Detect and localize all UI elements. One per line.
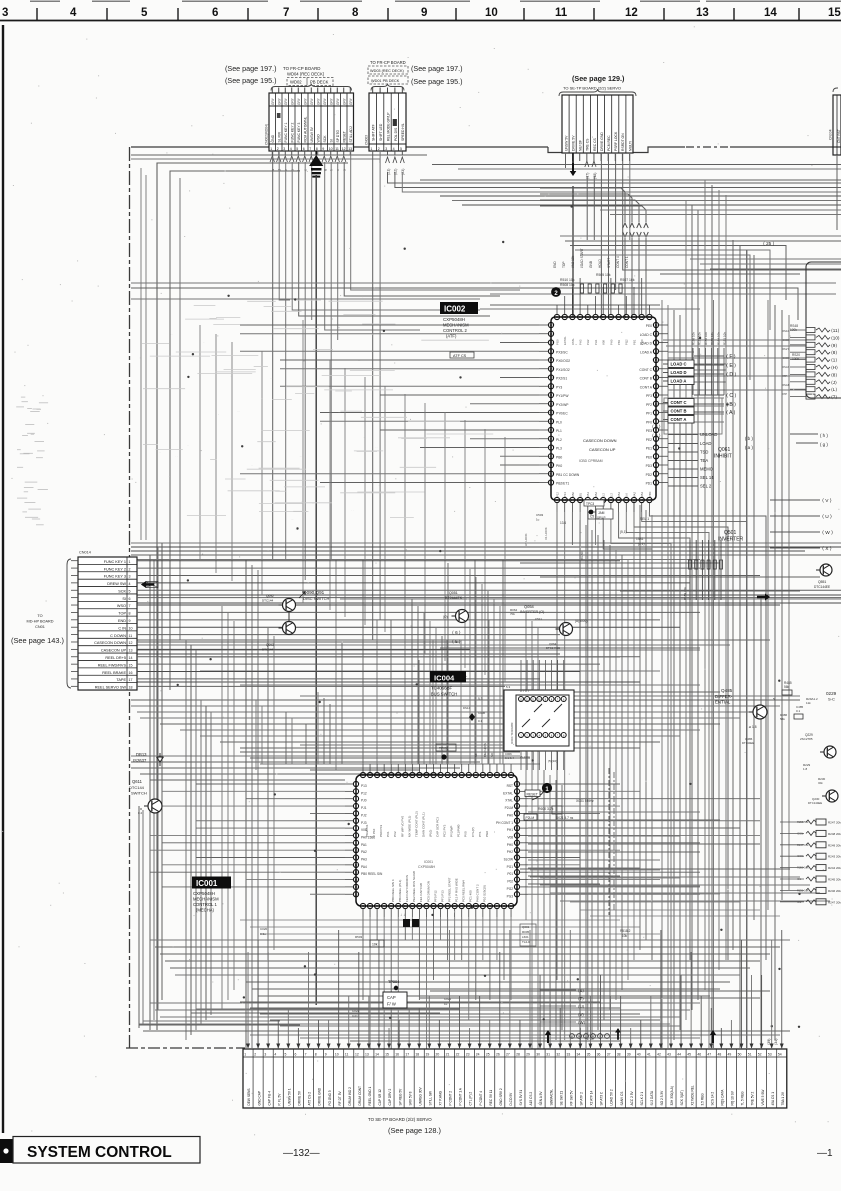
wire (137, 681, 640, 683)
bottom connector entry wires (246, 930, 784, 1049)
svg-text:CONT C: CONT C (671, 400, 687, 405)
wire (732, 240, 734, 950)
svg-text:( b ): ( b ) (745, 436, 753, 441)
svg-text:IC001: IC001 (196, 879, 218, 888)
transistor Q551 (814, 564, 832, 589)
svg-text:-: - (313, 502, 314, 506)
svg-text:7: 7 (129, 604, 131, 608)
svg-text:PY2/WP: PY2/WP (450, 826, 454, 837)
svg-text:13: 13 (365, 1052, 369, 1056)
svg-text:MECH CS: MECH CS (483, 743, 487, 757)
svg-text:PL0: PL0 (556, 420, 562, 424)
svg-text:⟨ 5 ⟩: ⟨ 5 ⟩ (452, 639, 461, 644)
svg-text:44: 44 (677, 1052, 681, 1056)
svg-text:..: .. (378, 483, 380, 487)
wire (300, 695, 800, 697)
svg-text:SHIFT LED: SHIFT LED (379, 123, 383, 141)
wire (199, 325, 201, 560)
svg-text:⟨9⟩: ⟨9⟩ (831, 343, 837, 348)
transistor Q229 (800, 733, 836, 758)
wire (179, 178, 181, 640)
net labels 6 5 casecon (452, 630, 461, 644)
svg-text:PX0/OO2: PX0/OO2 (556, 359, 570, 363)
svg-text:Q501: Q501 (724, 530, 736, 536)
wire (549, 775, 551, 1049)
wire (690, 258, 841, 260)
svg-text:TO FR-CP BOARD: TO FR-CP BOARD (283, 66, 320, 71)
wire (610, 214, 841, 216)
svg-text:CONTROL 1: CONTROL 1 (193, 902, 217, 907)
ruler (0, 7, 841, 21)
svg-text:R154 10k: R154 10k (716, 332, 720, 345)
wire (143, 1030, 790, 1032)
svg-text:R518-2: R518-2 (620, 929, 631, 933)
label CN002 board ref (283, 66, 333, 86)
svg-text:10k: 10k (372, 943, 378, 947)
wire (131, 282, 836, 284)
svg-text:37: 37 (607, 1052, 611, 1056)
wire (668, 397, 724, 399)
wire (540, 884, 810, 886)
svg-text:WD03 (REC DECK): WD03 (REC DECK) (370, 69, 404, 73)
svg-text:UNSW 5V 1: UNSW 5V 1 (287, 1088, 291, 1105)
net label 25 (763, 241, 774, 246)
wire (613, 772, 615, 912)
svg-text:SPEED H/L: SPEED H/L (401, 123, 405, 141)
component group Q001 (520, 924, 536, 946)
wire (395, 172, 841, 188)
connector servo exit labels (566, 153, 630, 179)
test point TP004 CAP F/W (383, 980, 407, 1008)
svg-text:SP DTG: SP DTG (336, 130, 340, 143)
svg-text:39: 39 (627, 1052, 631, 1056)
svg-text:RSJA: RSJA (782, 365, 789, 369)
svg-text:13: 13 (348, 147, 352, 151)
svg-text:A15 CS 2: A15 CS 2 (529, 1092, 533, 1106)
wire (131, 767, 460, 769)
svg-text:⟨ V ⟩: ⟨ V ⟩ (822, 498, 832, 504)
arrow left DREW top layer (141, 581, 154, 588)
svg-text:FE0 CAP FWD/RVS: FE0 CAP FWD/RVS (405, 875, 409, 902)
svg-text:1: 1 (244, 1052, 246, 1056)
svg-text:DTC144EE: DTC144EE (814, 585, 830, 589)
wire (261, 351, 263, 595)
svg-text:56k: 56k (784, 685, 790, 689)
wire (565, 153, 567, 168)
svg-text:2: 2 (254, 1052, 256, 1056)
wire (149, 555, 151, 1030)
wire (402, 172, 841, 192)
svg-text:. .: . . (375, 445, 378, 449)
svg-text:P12: P12 (555, 492, 559, 497)
svg-text:CASECON DOWN: CASECON DOWN (583, 438, 617, 443)
left margin smudge (16, 397, 48, 525)
svg-text:11: 11 (345, 1052, 349, 1056)
svg-text:LOAD: LOAD (700, 441, 711, 446)
footer title SYSTEM CONTROL (13, 1137, 200, 1164)
svg-text:4: 4 (393, 147, 395, 151)
svg-text:45A CS 1: 45A CS 1 (771, 1092, 775, 1106)
svg-text:CONT C: CONT C (639, 368, 652, 372)
wire (131, 542, 841, 544)
label see page 129 (572, 74, 625, 83)
svg-text:8: 8 (129, 612, 131, 616)
svg-text:R155 10k: R155 10k (710, 332, 714, 345)
svg-text:PH2: PH2 (507, 850, 513, 854)
wire (397, 917, 399, 1049)
wire (615, 153, 617, 290)
wire (384, 386, 386, 632)
wire (572, 186, 574, 330)
wire (540, 206, 646, 222)
svg-text:V08: V08 (602, 340, 606, 345)
svg-text:PX1/SO2: PX1/SO2 (556, 368, 570, 372)
transistor Q611 (129, 779, 162, 815)
svg-text:PH0: PH0 (507, 843, 513, 847)
svg-text:MD-HP BOARD: MD-HP BOARD (27, 620, 54, 624)
transistors Q090 Q091 disc switch (262, 594, 296, 652)
wire (668, 413, 724, 415)
wire (432, 640, 434, 764)
wire (404, 917, 406, 940)
wire (433, 917, 435, 980)
wire (474, 560, 476, 764)
wire (320, 482, 539, 484)
svg-text:TL 5 REG: TL 5 REG (741, 1091, 745, 1106)
wire (528, 834, 760, 836)
label CN014 board ref (27, 614, 54, 629)
paper smudge texture (142, 300, 493, 521)
arrow up bottom 1 (545, 1030, 551, 1043)
svg-text:DTC144: DTC144 (262, 648, 274, 652)
svg-text:...: ... (170, 332, 173, 336)
svg-text:MEMO: MEMO (700, 467, 714, 472)
svg-text:5.3: 5.3 (478, 697, 483, 701)
wire (145, 175, 147, 540)
label IC004 top layer (430, 671, 466, 683)
wire (560, 900, 830, 902)
IC U-IC001 chip body (345, 764, 528, 917)
svg-text:REL MODE GP/LP: REL MODE GP/LP (386, 112, 390, 141)
wire (595, 512, 597, 545)
svg-text:36: 36 (597, 1052, 601, 1056)
wire (638, 238, 640, 460)
wire (139, 1023, 670, 1025)
wire (570, 246, 786, 301)
arrow up CN002 top layer (309, 155, 323, 174)
svg-text:C503: C503 (536, 513, 544, 517)
wire (739, 245, 741, 1048)
svg-text:PB0: PB0 (648, 491, 652, 497)
svg-text:END: END (553, 261, 557, 268)
svg-text:Q001: Q001 (522, 925, 530, 929)
wire (150, 849, 345, 851)
svg-text:Q092: Q092 (266, 594, 274, 598)
svg-text:CONT A: CONT A (671, 417, 687, 422)
wire (175, 974, 740, 976)
svg-text:PX2/S1: PX2/S1 (556, 377, 567, 381)
svg-text:47P: 47P (782, 374, 787, 378)
wire (304, 162, 306, 580)
wire (302, 320, 304, 603)
wire (420, 447, 539, 449)
label see page 197 (225, 64, 277, 73)
wire (608, 153, 610, 317)
wire (591, 530, 593, 1040)
svg-text:TBA 1 2V: TBA 1 2V (781, 1091, 785, 1105)
wire (261, 706, 263, 764)
wire (131, 644, 730, 646)
svg-text:TP004: TP004 (388, 980, 399, 984)
svg-text:6: 6 (295, 1052, 297, 1056)
svg-text:RQS DATA: RQS DATA (720, 1089, 724, 1106)
resistor ladder RS group (782, 324, 840, 400)
wire (250, 926, 640, 928)
wire (475, 577, 477, 764)
wire (196, 827, 345, 829)
svg-text:PB0: PB0 (556, 455, 562, 459)
svg-text:3: 3 (385, 147, 387, 151)
svg-text:SLOW: SLOW (504, 858, 513, 862)
diode DB13 (133, 752, 164, 766)
label Q501 INVERTER (718, 530, 744, 543)
wire (615, 550, 617, 1000)
svg-text:IC004: IC004 (434, 674, 455, 683)
svg-text:-: - (261, 396, 262, 400)
wire (528, 805, 620, 807)
label see page 197 right (411, 64, 463, 73)
svg-text:SE SW 21: SE SW 21 (559, 1091, 563, 1106)
svg-text:30: 30 (536, 1052, 540, 1056)
wire (550, 892, 820, 894)
wire (162, 842, 345, 844)
wire (162, 790, 345, 792)
svg-text:⟨1⟩: ⟨1⟩ (831, 358, 837, 363)
wire (160, 656, 620, 658)
svg-text:PG0: PG0 (485, 831, 489, 837)
wire (788, 315, 790, 890)
wire (488, 620, 490, 764)
wire (624, 238, 626, 460)
component pair black squares (400, 912, 419, 927)
wire (645, 510, 647, 940)
transistor Q059 (443, 591, 469, 623)
svg-text:SI 2 DATA: SI 2 DATA (650, 1090, 654, 1105)
svg-text:PF1: PF1 (646, 412, 652, 416)
svg-text:PL3: PL3 (556, 447, 562, 451)
svg-text:⟨ 5 ⟩: ⟨ 5 ⟩ (652, 433, 661, 438)
wire (560, 893, 720, 895)
wire (215, 334, 217, 573)
wire (329, 704, 331, 764)
svg-text:PF2 REEL START: PF2 REEL START (447, 877, 451, 902)
wire (420, 179, 841, 181)
wire (661, 300, 663, 1048)
svg-text:SYSTEM CONTROL: SYSTEM CONTROL (27, 1144, 172, 1161)
svg-text:49: 49 (728, 1052, 732, 1056)
wire (315, 175, 317, 1005)
svg-text:5: 5 (284, 1052, 286, 1056)
arrow down servo top layer (570, 163, 576, 176)
wire (150, 871, 345, 873)
svg-text:PX2: PX2 (393, 831, 397, 837)
wire (153, 559, 155, 1020)
svg-text:PA4: PA4 (361, 865, 367, 869)
svg-text:L601: L601 (522, 935, 529, 939)
wire (246, 798, 345, 800)
wire (196, 857, 345, 859)
wire (469, 569, 471, 764)
svg-text:R247 20k: R247 20k (828, 900, 841, 904)
svg-text:X2 ATF 14: X2 ATF 14 (590, 1090, 594, 1105)
board frame left border (129, 147, 131, 1048)
svg-text:CONT A: CONT A (640, 385, 653, 389)
wire (502, 560, 504, 764)
svg-text:SI: SI (122, 597, 126, 601)
wire (490, 293, 836, 295)
wire (200, 670, 660, 672)
wire (621, 555, 623, 990)
wire (220, 741, 660, 743)
wire (565, 240, 841, 242)
wire (528, 859, 660, 861)
wire (649, 512, 766, 960)
svg-text:8: 8 (352, 7, 359, 19)
svg-text:⟨7⟩: ⟨7⟩ (831, 395, 837, 400)
svg-text:1.8: 1.8 (803, 767, 808, 771)
svg-text:LOAD C: LOAD C (671, 362, 687, 367)
wire (487, 591, 489, 764)
svg-text:L: L (599, 1035, 601, 1039)
svg-text:42: 42 (657, 1052, 661, 1056)
svg-text:PE1: PE1 (646, 447, 652, 451)
svg-text:LOAD A: LOAD A (640, 350, 653, 354)
wire (196, 712, 460, 1009)
wire (528, 811, 700, 813)
wire (362, 917, 364, 1000)
wire (528, 842, 700, 844)
wire (540, 576, 820, 578)
svg-text:SCLK 2 1: SCLK 2 1 (640, 1092, 644, 1106)
wire (510, 917, 512, 1000)
wire (291, 718, 293, 764)
wire (447, 563, 449, 764)
wire (139, 812, 300, 1025)
svg-text:PJ0: PJ0 (361, 799, 367, 803)
wire (137, 594, 841, 596)
wire (280, 1025, 680, 1027)
svg-text:R508 10k: R508 10k (560, 283, 575, 287)
wire (528, 820, 760, 822)
wire (250, 1007, 620, 1009)
svg-text:52: 52 (758, 1052, 762, 1056)
wire (556, 512, 558, 980)
svg-text:AN2 10k: AN2 10k (571, 255, 575, 268)
wire (380, 429, 539, 431)
svg-text:Q054: Q054 (524, 604, 535, 609)
svg-text:TO SE-TP BOARD (2/2) SERVO: TO SE-TP BOARD (2/2) SERVO (368, 1117, 432, 1122)
wire (528, 827, 740, 829)
svg-text:7: 7 (305, 1052, 307, 1056)
svg-text:2: 2 (277, 147, 279, 151)
svg-text:TO: TO (37, 614, 42, 618)
svg-text:⟨10⟩: ⟨10⟩ (831, 335, 840, 340)
svg-text:EXTAL: EXTAL (503, 791, 513, 795)
wire (608, 768, 610, 915)
svg-text:BIL SC: BIL SC (580, 550, 584, 560)
wire (528, 879, 660, 881)
wire (651, 515, 653, 930)
svg-text:DB13: DB13 (136, 752, 147, 757)
wire (461, 917, 463, 960)
wire (500, 455, 539, 457)
wire (150, 779, 345, 781)
svg-text:PC0 DRUM ON: PC0 DRUM ON (426, 881, 430, 902)
svg-text:-: - (218, 413, 219, 417)
resistors R505-R510 (560, 273, 635, 293)
svg-text:GRY: GRY (278, 97, 282, 105)
svg-text:TAPE: TAPE (116, 678, 126, 682)
wire (611, 512, 671, 1048)
wire (691, 205, 693, 1010)
label IC002 (440, 302, 478, 339)
svg-text:47: 47 (707, 1052, 711, 1056)
wire (710, 268, 841, 270)
svg-text:24: 24 (476, 1052, 480, 1056)
wire (631, 238, 633, 460)
svg-text:⟨ F ⟩: ⟨ F ⟩ (726, 354, 736, 360)
svg-text:GRY: GRY (291, 97, 295, 105)
wire (227, 613, 229, 1000)
wire (528, 819, 720, 821)
svg-text:PA2: PA2 (632, 491, 636, 497)
wire (140, 717, 740, 719)
svg-text:AT LOCK: AT LOCK (524, 533, 528, 546)
svg-text:PY0/EC: PY0/EC (556, 412, 568, 416)
wire (310, 893, 345, 895)
svg-text:SHIFT ATF: SHIFT ATF (372, 124, 376, 141)
test point TP004 top layer (383, 980, 407, 1008)
wire (609, 545, 611, 1010)
wire (587, 512, 589, 1040)
svg-text:⟨ E ⟩: ⟨ E ⟩ (726, 363, 736, 369)
net labels 39 34 (767, 1039, 778, 1045)
wire (490, 304, 660, 306)
wire (528, 871, 700, 873)
labels right of IC001 top (524, 790, 594, 820)
svg-text:SCK: SCK (118, 589, 126, 593)
svg-text:GRY: GRY (297, 97, 301, 105)
svg-text:11: 11 (555, 7, 568, 19)
wire (131, 705, 780, 707)
svg-text:P01: P01 (507, 872, 513, 876)
svg-text:PE0: PE0 (646, 324, 652, 328)
resistor R503 (355, 935, 384, 947)
svg-text:GRY: GRY (284, 97, 288, 105)
svg-text:5: 5 (129, 589, 131, 593)
svg-text:3: 3 (129, 575, 131, 579)
svg-text:P2LM: P2LM (505, 806, 514, 810)
wire (781, 310, 783, 900)
svg-text:3: 3 (264, 1052, 266, 1056)
wire (454, 917, 456, 960)
svg-text:TO SE-TP BOARD (2/2) SERVO: TO SE-TP BOARD (2/2) SERVO (563, 86, 621, 91)
svg-text:PH1: PH1 (594, 339, 598, 345)
wire (233, 621, 235, 990)
wire (424, 403, 426, 654)
wire (600, 209, 841, 211)
svg-text:PJ1: PJ1 (361, 806, 367, 810)
